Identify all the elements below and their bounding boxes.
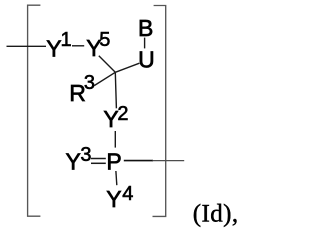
right bracket <box>153 6 166 217</box>
wire: bond P down to Y4 <box>115 171 118 185</box>
svg-text:3: 3 <box>80 144 91 166</box>
svg-text:P: P <box>106 149 121 175</box>
svg-text:Y: Y <box>46 35 61 61</box>
wire: bond Y5 to central carbon vertex <box>99 56 116 73</box>
svg-text:2: 2 <box>117 103 128 125</box>
svg-text:B: B <box>138 15 153 41</box>
wire: bond Y1-Y5 <box>72 45 84 47</box>
wire: bond vertex down to Y2 <box>115 72 116 108</box>
wire: left attachment bond crossing bracket <box>7 45 47 47</box>
svg-text:U: U <box>138 46 155 72</box>
wire: bond Y2 down to P <box>114 131 116 148</box>
svg-text:1: 1 <box>61 29 72 51</box>
svg-text:Y: Y <box>66 149 81 175</box>
svg-text:(Id),: (Id), <box>193 201 239 228</box>
left bracket <box>28 5 41 216</box>
svg-text:Y: Y <box>106 186 121 212</box>
svg-text:3: 3 <box>84 72 95 94</box>
wire: bond P to right crossing bracket <box>124 160 153 162</box>
svg-text:4: 4 <box>122 183 133 205</box>
wire: bond B-U <box>144 38 146 49</box>
svg-text:5: 5 <box>99 29 110 51</box>
wire: bond vertex to U <box>115 63 139 72</box>
wire: bond vertex to R3 <box>94 72 115 85</box>
wire: double bond Y3=P <box>91 158 106 160</box>
